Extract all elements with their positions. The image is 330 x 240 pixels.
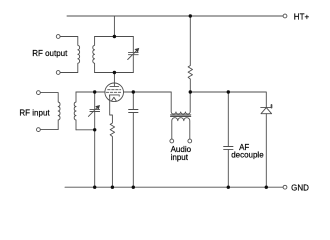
svg-text:input: input	[171, 153, 189, 162]
svg-text:GND: GND	[291, 184, 309, 193]
svg-text:RF output: RF output	[32, 49, 68, 58]
svg-text:RF input: RF input	[19, 108, 50, 117]
svg-text:HT+: HT+	[294, 13, 310, 22]
svg-text:decouple: decouple	[231, 150, 264, 159]
